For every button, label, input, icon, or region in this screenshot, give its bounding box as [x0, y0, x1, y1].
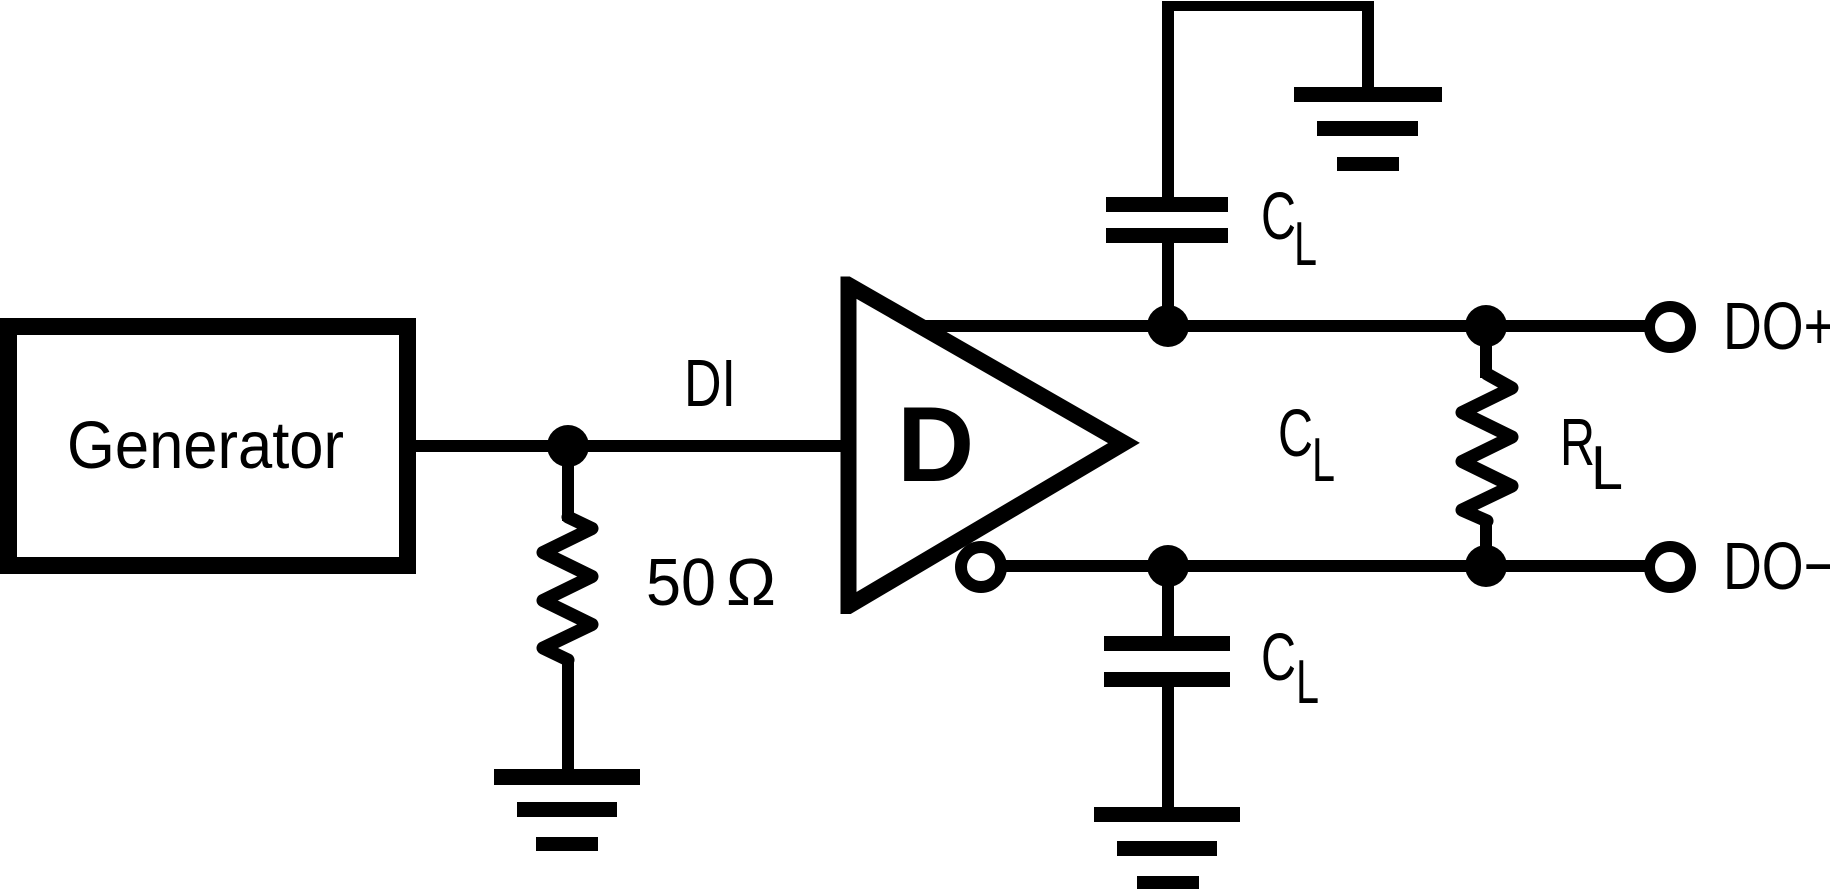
- wire RL down to bottom node: [1480, 519, 1492, 566]
- svg-text:L: L: [1591, 434, 1623, 503]
- svg-text:D: D: [897, 384, 974, 504]
- svg-text:C: C: [1261, 620, 1296, 695]
- inversion bubble on lower output: [961, 547, 1001, 587]
- svg-text:L: L: [1296, 648, 1319, 717]
- capacitor CL (bottom): [1162, 566, 1174, 637]
- resistor 50 ohm zigzag: [543, 517, 592, 660]
- terminal DO-: [1650, 547, 1691, 588]
- svg-text:L: L: [1312, 426, 1335, 495]
- node bottom line / CL bottom: [1147, 545, 1189, 587]
- svg-text:Generator: Generator: [67, 408, 344, 483]
- generator box: [9, 327, 408, 566]
- svg-text:DO+: DO+: [1723, 289, 1830, 364]
- svg-text:Ω: Ω: [726, 545, 776, 620]
- node bottom line / RL: [1465, 545, 1507, 587]
- terminal DO+: [1650, 307, 1691, 348]
- ground (below 50 ohm resistor): [494, 769, 640, 851]
- wire generator output to driver input: [416, 440, 853, 452]
- node top line / RL: [1465, 305, 1507, 347]
- svg-text:DO−: DO−: [1723, 529, 1830, 604]
- bottom output wire DO- line: [1003, 560, 1645, 572]
- node junction at generator output: [547, 425, 589, 467]
- svg-text:L: L: [1294, 210, 1317, 279]
- svg-text:R: R: [1560, 405, 1595, 480]
- svg-text:C: C: [1278, 396, 1313, 471]
- top rail wire: [1162, 1, 1374, 11]
- wire resistor to ground: [562, 658, 574, 776]
- top output wire DO+ line: [922, 320, 1645, 332]
- driver triangle U1: [849, 285, 1125, 606]
- wire node down to resistor: [562, 446, 574, 521]
- ground (top right): [1294, 87, 1442, 171]
- capacitor CL (top) plates: [1106, 197, 1228, 212]
- wire top plate up to top rail: [1162, 1, 1174, 197]
- resistor RL zigzag: [1462, 374, 1512, 521]
- ground (bottom middle): [1094, 807, 1240, 889]
- svg-text:C: C: [1261, 179, 1296, 254]
- wire bottom plate down to top line: [1162, 243, 1174, 326]
- wire top rail down to ground: [1362, 1, 1374, 95]
- svg-text:50: 50: [646, 545, 716, 620]
- wire top node down to RL: [1480, 326, 1492, 378]
- node top line / CL top: [1147, 305, 1189, 347]
- svg-text:DI: DI: [684, 346, 736, 421]
